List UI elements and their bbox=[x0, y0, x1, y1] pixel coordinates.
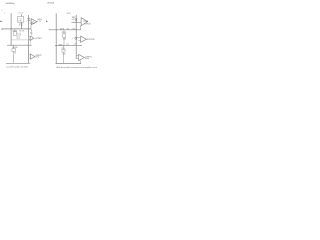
wire tick up to A1r bbox=[80, 26, 82, 30]
svg-text:2N2905: 2N2905 bbox=[30, 23, 35, 25]
svg-text:6.2V: 6.2V bbox=[72, 19, 75, 21]
node: plus input terminal bbox=[1, 28, 3, 30]
node: output arrow mark bbox=[46, 21, 48, 22]
wire tick up to A3r bbox=[80, 61, 82, 64]
diode D2 zener on V2r bbox=[75, 19, 77, 21]
junction R10-H2r bbox=[62, 44, 65, 47]
svg-text:5W: 5W bbox=[19, 21, 22, 23]
wire V3 rail bbox=[28, 15, 30, 63]
op-amp A2 bbox=[30, 36, 34, 40]
wire H4 bottom bbox=[6, 62, 30, 64]
node: faint input marks top-left bbox=[1, 9, 4, 12]
junction R6-H3 bbox=[12, 44, 15, 47]
diode D1 on V3 bbox=[28, 18, 30, 20]
resistor R6 vertical with box bbox=[13, 45, 15, 63]
wire V1r rail bbox=[55, 14, 57, 64]
junction V2r-H1r bbox=[76, 29, 77, 30]
resistor R10 vertical with box bbox=[63, 46, 65, 64]
wire V1 input rail bbox=[10, 14, 12, 45]
wire A3 input ticks bbox=[29, 54, 31, 56]
op-amp A3 bbox=[31, 54, 35, 59]
resistor R5 small box bbox=[17, 36, 19, 38]
svg-text:R9: R9 bbox=[66, 44, 69, 46]
diode D3 on V2r bbox=[75, 37, 77, 39]
svg-text:OUTPUT 1: OUTPUT 1 bbox=[84, 24, 91, 26]
junction V3-H1 bbox=[28, 28, 29, 29]
wire to A2 input bbox=[11, 39, 30, 41]
wire A2 input ticks bbox=[29, 36, 31, 38]
svg-text:+15V: +15V bbox=[66, 13, 71, 15]
svg-text:Wide band width instrumentatio: Wide band width instrumentation amplifie… bbox=[56, 66, 97, 69]
wire A3r input ticks bbox=[76, 55, 79, 57]
junction V1-H3 bbox=[11, 45, 12, 46]
wire H1 bbox=[3, 28, 31, 30]
svg-text:LM108 Reg: LM108 Reg bbox=[6, 3, 16, 5]
svg-text:Low drift sample and hold: Low drift sample and hold bbox=[6, 66, 27, 69]
svg-text:10 Hz: 10 Hz bbox=[35, 56, 39, 58]
svg-text:OUTPUT 10V: OUTPUT 10V bbox=[86, 39, 95, 41]
svg-text:LM103: LM103 bbox=[37, 19, 42, 21]
op-amp A2r bbox=[81, 36, 87, 42]
junction V1r-H1r bbox=[56, 29, 57, 30]
svg-text:10 Hz: 10 Hz bbox=[85, 58, 89, 60]
wire tick below A2 bbox=[30, 41, 32, 46]
svg-text:LM112A: LM112A bbox=[47, 2, 55, 5]
wire tick up to A1 bbox=[30, 25, 32, 29]
wire V2 rail bbox=[20, 14, 22, 29]
wire V2r rail bbox=[75, 15, 77, 59]
resistor R7 vertical with box bbox=[63, 30, 65, 46]
svg-text:LM108: LM108 bbox=[84, 21, 88, 23]
wire H2r bbox=[55, 45, 82, 47]
svg-text:R5: R5 bbox=[67, 29, 70, 31]
svg-text:1%: 1% bbox=[19, 25, 23, 27]
wire tick down from H1 at x31.3 bbox=[30, 29, 32, 32]
wire H3r bottom bbox=[56, 63, 82, 65]
wire H1r left tick bbox=[48, 29, 50, 30]
node: input arrow left edge bbox=[0, 21, 2, 23]
op-amp A1r bbox=[81, 18, 88, 26]
resistor R4 vertical with box bbox=[14, 29, 16, 36]
junction V2r wire bbox=[76, 22, 77, 23]
resistor R1 box on V2 bbox=[17, 17, 23, 23]
op-amp A1 bbox=[31, 19, 37, 25]
wire V1 top tick bbox=[10, 12, 11, 15]
op-amp A3r bbox=[79, 54, 85, 60]
wire H1r bbox=[49, 29, 81, 31]
wire V1r top tick bbox=[56, 12, 57, 15]
svg-text:OUTPUT 1: OUTPUT 1 bbox=[35, 38, 42, 40]
wire input to A1r bbox=[72, 21, 82, 23]
wire A1 input tick bbox=[29, 19, 32, 21]
junction V1-H1 bbox=[11, 28, 12, 29]
wire A2r input ticks bbox=[76, 37, 80, 39]
junction R7-H1r bbox=[63, 28, 66, 31]
wire H3 bbox=[7, 44, 32, 46]
junction V1r-H2r bbox=[56, 45, 57, 46]
capacitor C1 bbox=[30, 32, 32, 34]
